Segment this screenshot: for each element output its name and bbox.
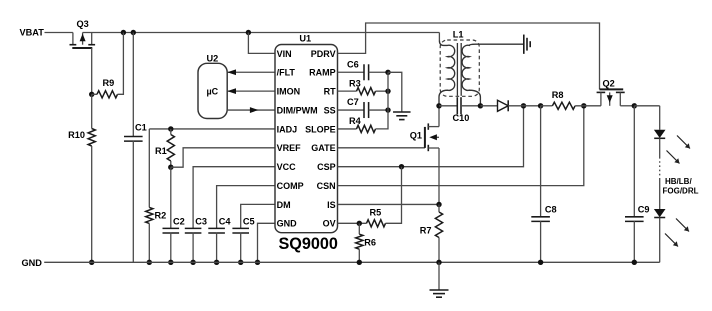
wire C3 bottom	[192, 233, 194, 263]
junction dot C4 bottom	[214, 260, 219, 265]
wire C1 top	[132, 33, 134, 137]
wire C8 bottom	[540, 221, 542, 262]
svg-text:SQ9000: SQ9000	[279, 235, 338, 253]
svg-text:Q2: Q2	[603, 79, 615, 89]
wire C6 to rail	[369, 71, 388, 73]
wire SLOPE stub	[338, 128, 357, 130]
capacitor C10	[456, 97, 458, 114]
junction dot SS rail	[385, 107, 390, 112]
svg-text:Q3: Q3	[77, 19, 89, 29]
wire LED bottom	[659, 218, 661, 263]
svg-text:PDRV: PDRV	[311, 49, 336, 59]
wire Q3 gate down	[91, 48, 93, 94]
wire GATE to Q1	[338, 147, 425, 149]
wire SS stub	[338, 109, 365, 111]
junction dot gate divider	[89, 92, 94, 97]
wire IMON to U2	[227, 90, 275, 92]
wire Q1 source	[438, 148, 440, 204]
wire R9 right up to rail	[118, 33, 124, 95]
mcu U2 box	[198, 63, 227, 118]
svg-text:DM: DM	[277, 200, 291, 210]
junction dot R10 bottom	[89, 260, 94, 265]
resistor R10	[88, 129, 95, 147]
svg-text:R5: R5	[370, 207, 382, 217]
wire C4 bottom	[216, 233, 218, 263]
ground (secondary)	[523, 35, 525, 54]
capacitor C4	[208, 227, 225, 229]
junction dot R7 gnd	[436, 260, 441, 265]
svg-text:FOG/DRL: FOG/DRL	[663, 187, 699, 196]
inductor L1 core	[456, 43, 458, 96]
junction dot GND pin bottom	[255, 260, 260, 265]
transistor Q2	[597, 89, 625, 105]
svg-text:µC: µC	[207, 86, 219, 96]
resistor R9	[97, 91, 118, 98]
wire OV row	[338, 222, 367, 224]
transistor Q3	[70, 33, 96, 49]
svg-text:IS: IS	[327, 200, 336, 210]
wire R9 left	[92, 93, 97, 95]
wire R6 bottom	[358, 249, 360, 262]
junction dot CSP main	[521, 103, 526, 108]
wire VIN feed	[248, 33, 275, 54]
svg-text:C4: C4	[219, 217, 232, 227]
svg-text:R9: R9	[103, 78, 115, 88]
inductor L1 primary winding	[439, 41, 455, 106]
junction dot C8 top	[538, 103, 543, 108]
svg-text:R3: R3	[349, 78, 361, 88]
svg-text:C1: C1	[135, 123, 147, 133]
wire R2 bottom	[148, 223, 150, 262]
wire R5 to CSP	[386, 167, 402, 224]
wire LED top	[659, 106, 661, 130]
ground (main earth)	[430, 289, 449, 291]
ground (timing network)	[393, 111, 411, 113]
wire C2 link	[170, 167, 172, 228]
svg-text:U2: U2	[207, 53, 219, 63]
junction dot ramp rail top	[385, 70, 390, 75]
junction dot CSN main	[581, 103, 586, 108]
diode D1	[498, 100, 509, 111]
svg-text:C5: C5	[243, 217, 255, 227]
svg-text:R8: R8	[552, 90, 564, 100]
svg-text:IADJ: IADJ	[277, 124, 298, 134]
wire C1 bottom	[132, 141, 134, 262]
svg-text:R1: R1	[155, 146, 167, 156]
junction dot RT rail	[385, 88, 390, 93]
inductor L1 secondary winding	[462, 44, 524, 106]
wire LED dotted continuation	[659, 157, 661, 179]
inductor L1 dashed boundary	[440, 40, 479, 96]
wire CSN row	[338, 106, 584, 186]
svg-text:OV: OV	[323, 219, 336, 229]
capacitor C6	[363, 64, 365, 80]
resistor R2	[146, 207, 153, 223]
wire RT stub	[338, 90, 357, 92]
resistor R3	[357, 88, 376, 95]
capacitor C9	[625, 216, 644, 218]
wire C7 to rail	[369, 109, 388, 111]
wire to diode	[480, 105, 497, 107]
wire GND pin	[258, 223, 276, 262]
svg-text:RT: RT	[324, 87, 336, 97]
svg-text:GND: GND	[22, 258, 43, 268]
wire /FLT to U2	[227, 71, 275, 73]
svg-text:R4: R4	[349, 116, 362, 126]
wire GND rail	[44, 261, 660, 263]
wire rail to ground	[388, 72, 402, 112]
junction dot C1 top	[131, 30, 136, 35]
svg-text:R7: R7	[420, 225, 432, 235]
LED light arrows lower	[676, 219, 689, 232]
svg-text:R10: R10	[68, 130, 85, 140]
wire VCC row	[193, 167, 275, 229]
svg-text:C8: C8	[545, 204, 557, 214]
svg-text:VBAT: VBAT	[20, 28, 45, 38]
junction dot C2 bottom	[168, 260, 173, 265]
svg-text:GND: GND	[277, 219, 298, 229]
wire R10 to GND rail	[91, 94, 93, 128]
svg-text:RAMP: RAMP	[309, 68, 336, 78]
wire R3 to rail	[376, 90, 389, 92]
wire Q2 to output node	[620, 105, 634, 107]
svg-text:R2: R2	[155, 210, 167, 220]
capacitor C1	[124, 136, 143, 138]
wire C10 right	[461, 105, 480, 107]
svg-text:SLOPE: SLOPE	[305, 124, 336, 134]
wire R1 top	[170, 129, 172, 135]
svg-text:U1: U1	[299, 33, 311, 43]
svg-text:VIN: VIN	[277, 49, 292, 59]
resistor R6	[356, 234, 363, 249]
wire CSP row	[338, 106, 524, 167]
svg-text:VREF: VREF	[277, 143, 302, 153]
svg-text:C10: C10	[453, 113, 470, 123]
resistor R7	[435, 212, 442, 238]
wire R6 top	[358, 223, 360, 234]
wire to R8	[541, 105, 553, 107]
svg-text:C3: C3	[195, 217, 207, 227]
wire U2 to DIM/PWM	[227, 109, 275, 111]
LED D2	[654, 130, 666, 138]
svg-text:IMON: IMON	[277, 87, 301, 97]
junction dot CSP divider	[399, 164, 404, 169]
junction dot C9 gnd	[632, 260, 637, 265]
wire Q1 drain	[438, 106, 440, 127]
junction dot R1 top	[168, 126, 173, 131]
wire IS row	[338, 203, 440, 205]
wire RAMP stub	[338, 71, 365, 73]
svg-text:C6: C6	[347, 59, 359, 69]
wire LED mid upper	[659, 138, 661, 157]
transistor Q1	[425, 123, 439, 151]
svg-text:Q1: Q1	[410, 130, 422, 140]
junction dot C10 left	[436, 103, 441, 108]
wire output to LED string	[634, 105, 659, 107]
junction dot C8 gnd	[538, 260, 543, 265]
op-amp U1 body (SQ9000 controller)	[275, 45, 338, 233]
svg-text:/FLT: /FLT	[277, 68, 296, 78]
svg-text:GATE: GATE	[311, 143, 335, 153]
wire C9 bottom	[633, 221, 635, 262]
junction dot IS node	[436, 202, 441, 207]
wire diode to CSP node	[508, 105, 540, 107]
junction dot OV divider	[357, 221, 362, 226]
resistor R8	[552, 102, 575, 109]
svg-text:SS: SS	[324, 105, 336, 115]
svg-text:C7: C7	[347, 97, 359, 107]
wire IADJ row	[149, 128, 275, 130]
resistor R5	[367, 220, 386, 227]
svg-text:HB/LB/: HB/LB/	[665, 177, 692, 186]
junction dot R6 gnd	[357, 260, 362, 265]
capacitor C5	[232, 227, 249, 229]
wire rail into L1 primary	[438, 33, 440, 41]
wire C8 top	[540, 106, 542, 217]
junction dot R9 top	[121, 30, 126, 35]
wire R7 bottom	[438, 238, 440, 263]
wire PDRV to Q2 gate	[338, 23, 600, 89]
svg-text:COMP: COMP	[277, 181, 304, 191]
wire VBAT to Q3 source	[45, 32, 73, 34]
capacitor C7	[363, 102, 365, 118]
svg-text:R6: R6	[364, 237, 376, 247]
wire R7 top	[438, 204, 440, 212]
wire COMP row	[217, 186, 275, 229]
svg-text:C2: C2	[173, 217, 185, 227]
wire C10 left	[439, 105, 457, 107]
wire LED mid lower	[659, 179, 661, 209]
junction dot C10 right	[478, 103, 483, 108]
LED D3	[654, 209, 666, 217]
wire R4 to rail	[376, 72, 389, 129]
wire R2 top	[148, 129, 150, 207]
pin labels U1	[277, 49, 336, 229]
junction dot R1 bottom	[168, 165, 173, 170]
svg-text:CSP: CSP	[317, 162, 336, 172]
wire R1 bottom	[170, 161, 172, 167]
capacitor C8	[531, 216, 550, 218]
wire C2 bottom	[170, 233, 172, 263]
wire R8 to Q2	[575, 105, 601, 107]
junction dot R2 bottom	[147, 260, 152, 265]
svg-text:DIM/PWM: DIM/PWM	[277, 105, 318, 115]
wire VREF jog	[171, 148, 275, 167]
wire C5 bottom	[240, 233, 242, 263]
svg-text:VCC: VCC	[277, 162, 297, 172]
junction dot C5 bottom	[238, 260, 243, 265]
wire DM row	[241, 204, 275, 228]
resistor R4	[357, 125, 376, 132]
resistor R1	[167, 135, 174, 162]
svg-text:L1: L1	[453, 29, 464, 39]
svg-text:C9: C9	[638, 204, 650, 214]
junction dot VIN tap	[246, 30, 251, 35]
wire top rail Q3 to L1	[83, 32, 440, 34]
capacitor C2	[163, 227, 180, 229]
svg-text:CSN: CSN	[317, 181, 336, 191]
wire C9 top	[633, 106, 635, 217]
junction dot output node	[632, 103, 637, 108]
LED light arrows upper	[677, 136, 690, 149]
wire earth stub	[438, 262, 440, 290]
capacitor C3	[185, 227, 202, 229]
junction dot C3 bottom	[190, 260, 195, 265]
